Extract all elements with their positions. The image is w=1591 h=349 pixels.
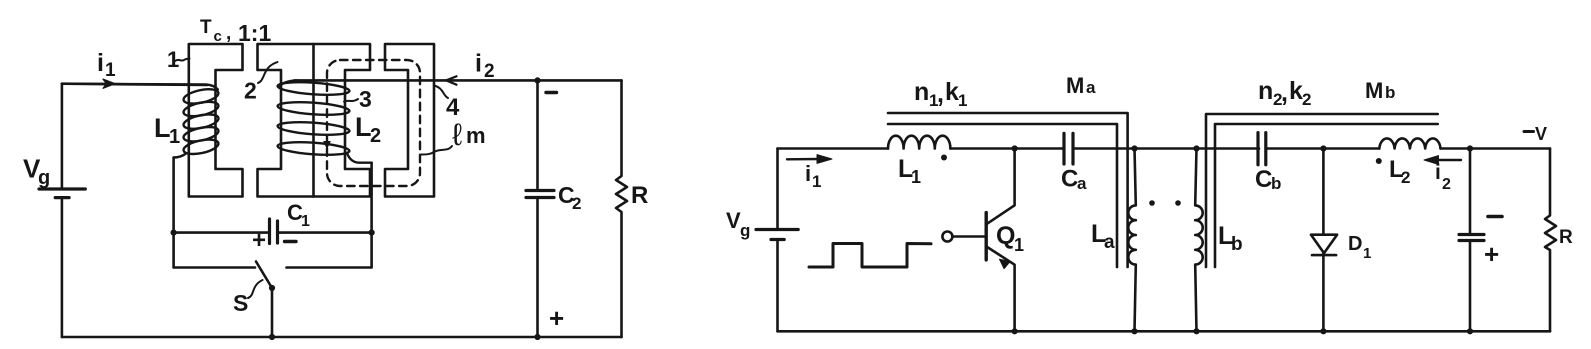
- svg-text:T: T: [200, 17, 212, 38]
- svg-text:+: +: [252, 227, 266, 254]
- svg-text:n: n: [914, 78, 929, 106]
- label La: [1091, 220, 1115, 253]
- label lm with leader: [422, 117, 486, 155]
- junction dot D1 bottom: [1320, 328, 1326, 334]
- label Q1: [996, 222, 1024, 255]
- wire: winding 3 bottom lead: [370, 163, 373, 233]
- label - (C1): [285, 240, 297, 243]
- node B dot (right of C1): [369, 230, 375, 236]
- label n2,k2: [1258, 77, 1311, 109]
- switch pivot dot: [269, 285, 275, 291]
- svg-text:1: 1: [1363, 245, 1371, 262]
- winding La: [1128, 149, 1136, 332]
- label 2 with leader: [244, 62, 278, 104]
- svg-text:1: 1: [169, 126, 180, 148]
- resistor R (left circuit): [616, 80, 627, 337]
- svg-text:a: a: [1086, 78, 1096, 97]
- wire: bottom rail (left circuit): [62, 336, 622, 339]
- svg-text:2: 2: [1442, 176, 1451, 193]
- junction dot C2 bottom: [534, 334, 540, 340]
- label Ca: [1061, 166, 1087, 194]
- svg-text:b: b: [1385, 83, 1395, 102]
- svg-text:1:1: 1:1: [238, 20, 271, 46]
- svg-text:D: D: [1348, 233, 1362, 255]
- wire: switch to bottom rail: [271, 288, 274, 337]
- capacitor C2: [536, 80, 539, 337]
- label L1 (right): [898, 155, 921, 187]
- svg-text:M: M: [1365, 78, 1383, 103]
- battery Vg (left): [39, 189, 85, 198]
- svg-text:m: m: [466, 123, 486, 148]
- label C2: [558, 182, 581, 213]
- junction dot bottom rail: [269, 334, 275, 340]
- svg-text:3: 3: [359, 86, 372, 112]
- svg-text:n: n: [1258, 77, 1273, 105]
- dashed flux path lm: [327, 60, 420, 186]
- label - (output cap): [1488, 215, 1502, 219]
- flux arrow on dashed path: [324, 142, 330, 149]
- svg-text:C: C: [1061, 166, 1078, 193]
- junction dot Lb top: [1193, 145, 1199, 151]
- svg-text:1: 1: [812, 172, 821, 191]
- switch S blade: [256, 262, 272, 289]
- svg-text:a: a: [1104, 232, 1115, 253]
- capacitor Cb: [1258, 133, 1266, 165]
- capacitor Ca: [1064, 133, 1073, 164]
- transistor Q1: [942, 232, 952, 242]
- svg-text:c: c: [214, 28, 222, 45]
- node A dot (left of C1): [171, 230, 177, 236]
- svg-text:k: k: [1289, 77, 1303, 105]
- svg-text:ℓ: ℓ: [452, 117, 462, 152]
- wire: i2 top wire to the right: [294, 79, 622, 82]
- label Vg (left): [23, 154, 50, 190]
- wire: switch loop left: [174, 233, 255, 268]
- coupling bar Ma (outer): [888, 113, 1128, 267]
- output capacitor C: [1469, 149, 1472, 332]
- label L2 (right): [1389, 156, 1410, 187]
- coupling bar Ma (inner): [888, 124, 1117, 267]
- label L2 (left circuit): [355, 112, 381, 147]
- svg-text:M: M: [1066, 73, 1084, 98]
- inductor L1 winding (left leg): [62, 84, 220, 158]
- wire: L1 bottom lead: [172, 158, 175, 233]
- junction dot D1 top: [1320, 145, 1326, 151]
- svg-text:b: b: [1231, 234, 1243, 255]
- core piece 1 (left C-core): [189, 44, 243, 197]
- label 3 with leader: [344, 86, 372, 112]
- inductor L1 (right circuit): [888, 136, 950, 149]
- wire: left rail lower: [61, 198, 64, 337]
- wire: switch loop right: [287, 233, 372, 268]
- svg-text:2: 2: [1401, 168, 1410, 187]
- resistor R (right circuit): [1545, 149, 1556, 332]
- label -V: [1524, 124, 1547, 144]
- junction dot output cap bottom: [1467, 328, 1473, 334]
- label 4 with leader: [435, 86, 461, 122]
- polarity dot L2: [1376, 158, 1382, 164]
- polarity dot Lb: [1175, 200, 1181, 206]
- inductor L2 (right circuit): [1379, 138, 1440, 148]
- wire: top-left i1 wire: [62, 84, 207, 85]
- arrow i1 head: [103, 79, 115, 88]
- svg-text:i: i: [475, 50, 482, 78]
- diode D1: [1311, 149, 1337, 254]
- polarity dot L1: [941, 155, 947, 161]
- svg-text:,: ,: [226, 23, 231, 44]
- svg-text:b: b: [1271, 174, 1281, 193]
- label i1: [97, 49, 116, 81]
- label S with leader: [233, 280, 263, 316]
- polarity dot La: [1149, 200, 1155, 206]
- junction dot output cap top: [1467, 145, 1473, 151]
- label - (C2 top): [546, 91, 557, 94]
- label Lb: [1218, 222, 1243, 255]
- label i1 (right): [805, 161, 821, 191]
- svg-text:1: 1: [105, 60, 116, 81]
- label Cb: [1255, 166, 1281, 193]
- svg-text:i: i: [805, 161, 811, 186]
- square wave drive symbol: [809, 244, 931, 268]
- svg-text:,: ,: [1281, 79, 1288, 107]
- core piece 4 (right C-core): [385, 44, 434, 197]
- svg-text:V: V: [726, 208, 741, 233]
- svg-text:+: +: [549, 303, 564, 333]
- svg-text:i: i: [1435, 161, 1441, 184]
- svg-text:1: 1: [1014, 235, 1024, 255]
- core piece 3 (center-right): [314, 44, 371, 197]
- junction dot Lb bottom: [1193, 328, 1199, 334]
- arrow i2 head: [446, 76, 457, 84]
- coupling bar Mb (inner): [1215, 124, 1438, 267]
- svg-text:g: g: [38, 167, 50, 189]
- svg-text:g: g: [740, 221, 750, 240]
- wire: bottom rail (right circuit): [778, 330, 1551, 333]
- svg-text:2: 2: [572, 194, 581, 213]
- svg-text:2: 2: [370, 125, 381, 147]
- capacitor C1: [174, 231, 372, 234]
- svg-text:C: C: [1255, 166, 1272, 193]
- battery Vg (right): [756, 230, 798, 240]
- svg-text:Q: Q: [996, 222, 1015, 250]
- arrow i2 (right circuit): [1436, 159, 1461, 161]
- svg-text:1: 1: [911, 167, 921, 187]
- label Tc, 1:1: [200, 17, 271, 46]
- label Ma: [1066, 73, 1096, 98]
- wire: top rail segments: [778, 147, 1551, 150]
- label L1: [154, 113, 180, 148]
- svg-text:1: 1: [958, 91, 967, 110]
- svg-text:R: R: [1559, 227, 1573, 248]
- winding 2-3 (middle legs) with i2 top wire: [277, 80, 371, 162]
- svg-text:2: 2: [244, 78, 257, 104]
- winding Lb: [1195, 149, 1203, 332]
- svg-text:1: 1: [301, 213, 310, 230]
- svg-text:k: k: [945, 78, 959, 106]
- label i2 (right): [1435, 161, 1451, 193]
- junction dot La bottom: [1131, 328, 1137, 334]
- coupling bar Mb (outer): [1206, 114, 1438, 267]
- label n1,k1: [914, 78, 967, 110]
- svg-text:2: 2: [484, 61, 495, 82]
- core piece 2 (center-left): [258, 44, 314, 197]
- label Mb: [1365, 78, 1395, 103]
- junction dot Q1 emitter: [1012, 328, 1018, 334]
- wire: left rail upper: [61, 84, 64, 189]
- svg-text:+: +: [1484, 239, 1499, 269]
- arrow i1 (right circuit): [787, 158, 820, 161]
- wire: left rail (right circuit): [776, 149, 779, 332]
- label 1 with leader: [167, 47, 190, 72]
- svg-text:a: a: [1077, 174, 1087, 193]
- junction dot C2 top: [534, 77, 540, 83]
- label C1: [287, 200, 310, 230]
- svg-text:2: 2: [1302, 90, 1311, 109]
- junction dot Q1 collector: [1012, 145, 1018, 151]
- svg-text:S: S: [233, 290, 248, 316]
- label i2: [475, 50, 495, 83]
- svg-text:,: ,: [937, 80, 944, 108]
- label Vg (right): [726, 208, 750, 240]
- label D1: [1348, 233, 1371, 262]
- svg-text:V: V: [1535, 124, 1547, 144]
- junction dot La top: [1131, 145, 1137, 151]
- svg-text:R: R: [631, 182, 648, 209]
- svg-text:i: i: [97, 49, 104, 77]
